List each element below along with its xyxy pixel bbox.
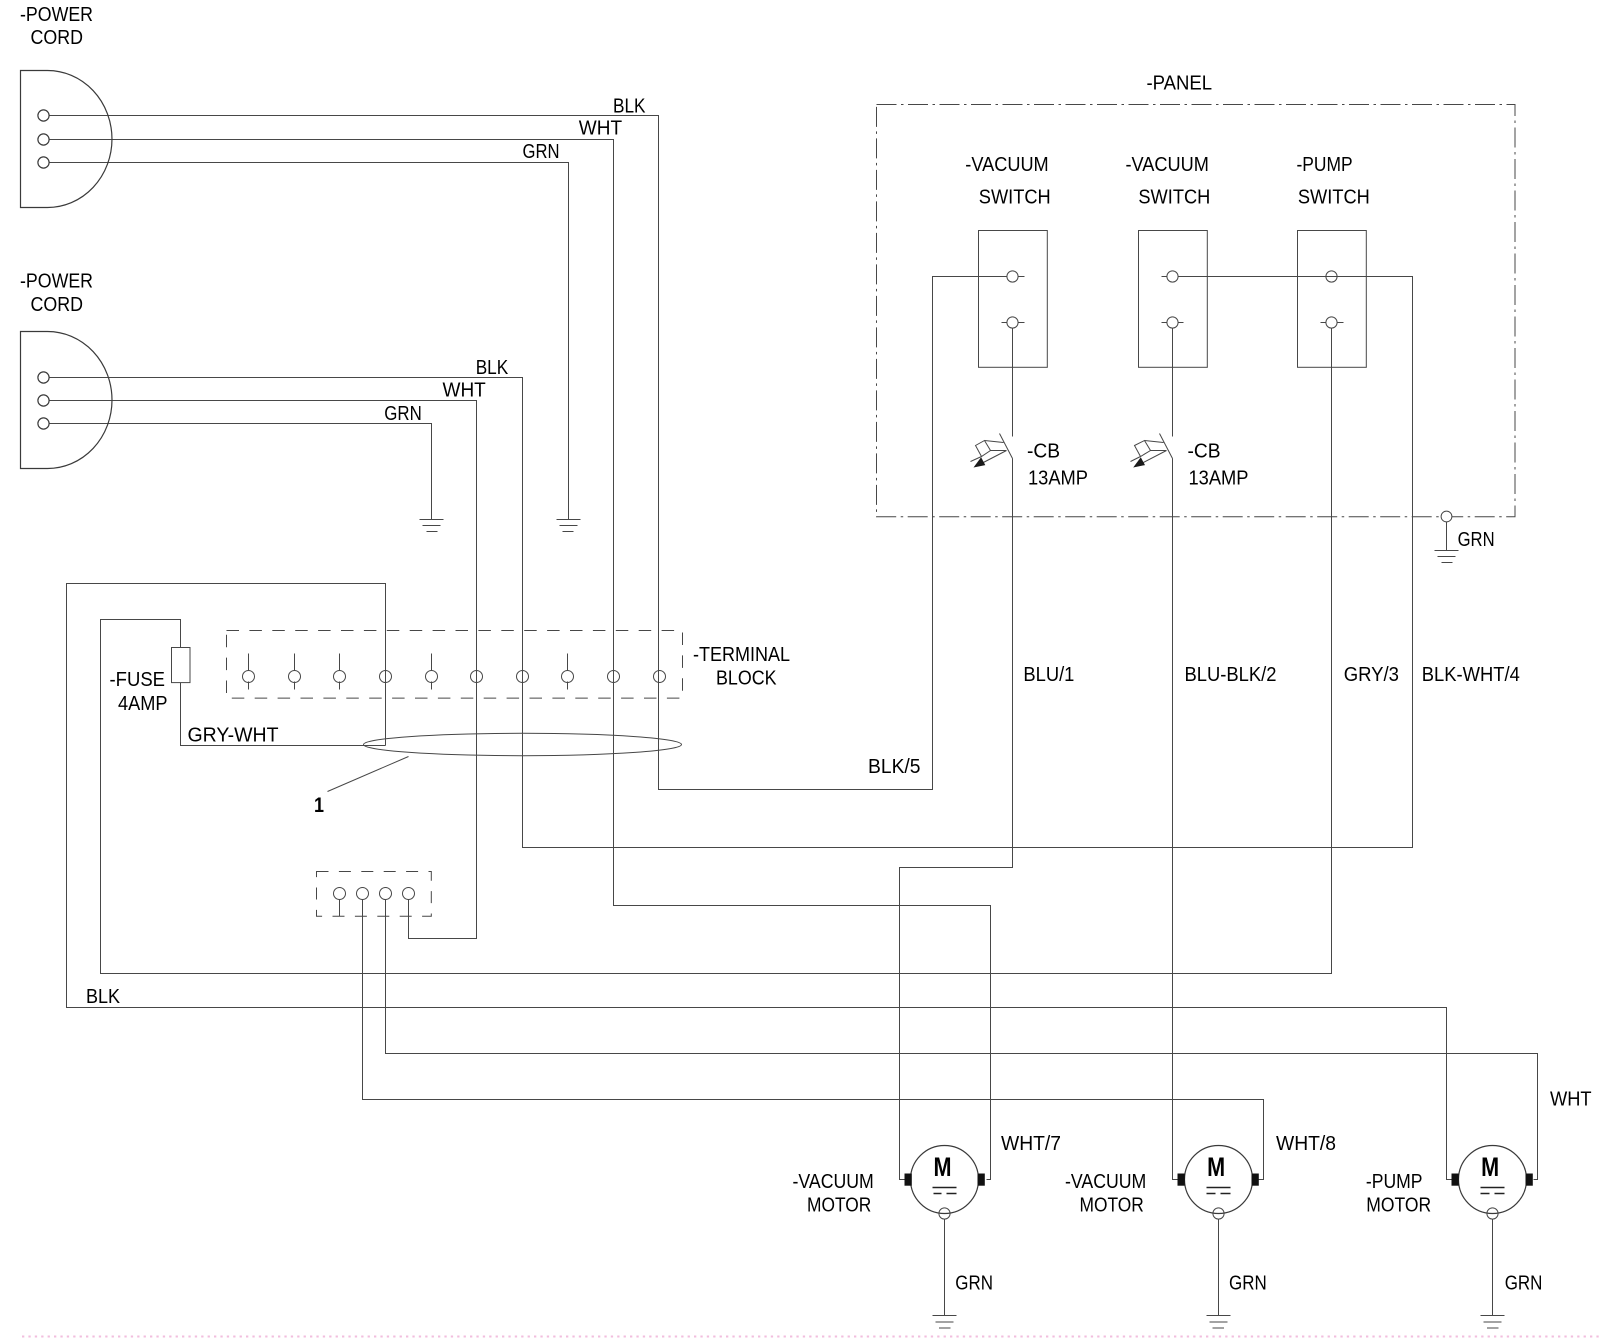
svg-text:-POWER: -POWER: [20, 3, 93, 26]
svg-text:WHT: WHT: [443, 378, 487, 401]
svg-text:BLK-WHT/4: BLK-WHT/4: [1422, 663, 1520, 686]
svg-text:-CB: -CB: [1027, 440, 1060, 463]
svg-text:BLK: BLK: [613, 94, 646, 117]
svg-text:13AMP: 13AMP: [1189, 467, 1249, 490]
svg-text:-FUSE: -FUSE: [110, 668, 166, 691]
svg-text:GRN: GRN: [1505, 1272, 1543, 1295]
svg-text:M: M: [1207, 1152, 1225, 1182]
svg-text:GRY-WHT: GRY-WHT: [188, 724, 279, 747]
svg-text:MOTOR: MOTOR: [1366, 1193, 1431, 1216]
svg-text:WHT/7: WHT/7: [1001, 1132, 1061, 1155]
svg-text:M: M: [1481, 1152, 1499, 1182]
svg-text:4AMP: 4AMP: [118, 692, 168, 715]
svg-text:-PUMP: -PUMP: [1297, 153, 1353, 176]
svg-text:BLK: BLK: [86, 985, 120, 1008]
svg-text:-VACUUM: -VACUUM: [793, 1170, 874, 1193]
svg-text:-CB: -CB: [1188, 440, 1221, 463]
svg-text:WHT: WHT: [579, 117, 623, 140]
svg-text:CORD: CORD: [31, 26, 84, 49]
svg-text:GRN: GRN: [384, 402, 422, 425]
svg-text:MOTOR: MOTOR: [807, 1193, 871, 1216]
svg-text:-POWER: -POWER: [20, 270, 93, 293]
svg-text:BLU-BLK/2: BLU-BLK/2: [1185, 663, 1277, 686]
svg-text:-VACUUM: -VACUUM: [1126, 153, 1209, 176]
svg-text:SWITCH: SWITCH: [1138, 185, 1210, 208]
svg-text:GRN: GRN: [1458, 528, 1495, 551]
svg-text:-VACUUM: -VACUUM: [965, 153, 1048, 176]
svg-text:BLOCK: BLOCK: [716, 667, 777, 690]
svg-text:BLK: BLK: [476, 356, 509, 379]
svg-text:13AMP: 13AMP: [1028, 467, 1088, 490]
svg-text:BLU/1: BLU/1: [1023, 663, 1074, 686]
svg-text:GRY/3: GRY/3: [1344, 663, 1399, 686]
svg-text:WHT/8: WHT/8: [1276, 1132, 1336, 1155]
svg-text:-PANEL: -PANEL: [1147, 72, 1213, 95]
svg-text:-VACUUM: -VACUUM: [1065, 1170, 1146, 1193]
svg-text:BLK/5: BLK/5: [868, 755, 921, 778]
svg-text:1: 1: [314, 794, 324, 817]
svg-text:GRN: GRN: [523, 140, 560, 163]
svg-text:SWITCH: SWITCH: [1298, 185, 1370, 208]
svg-text:-TERMINAL: -TERMINAL: [693, 643, 790, 666]
svg-text:M: M: [934, 1152, 952, 1182]
svg-text:MOTOR: MOTOR: [1080, 1193, 1144, 1216]
svg-text:-PUMP: -PUMP: [1366, 1170, 1423, 1193]
svg-text:WHT: WHT: [1550, 1088, 1592, 1111]
svg-text:SWITCH: SWITCH: [979, 185, 1051, 208]
svg-text:GRN: GRN: [1229, 1272, 1267, 1295]
svg-text:CORD: CORD: [31, 293, 84, 316]
svg-text:GRN: GRN: [955, 1272, 993, 1295]
